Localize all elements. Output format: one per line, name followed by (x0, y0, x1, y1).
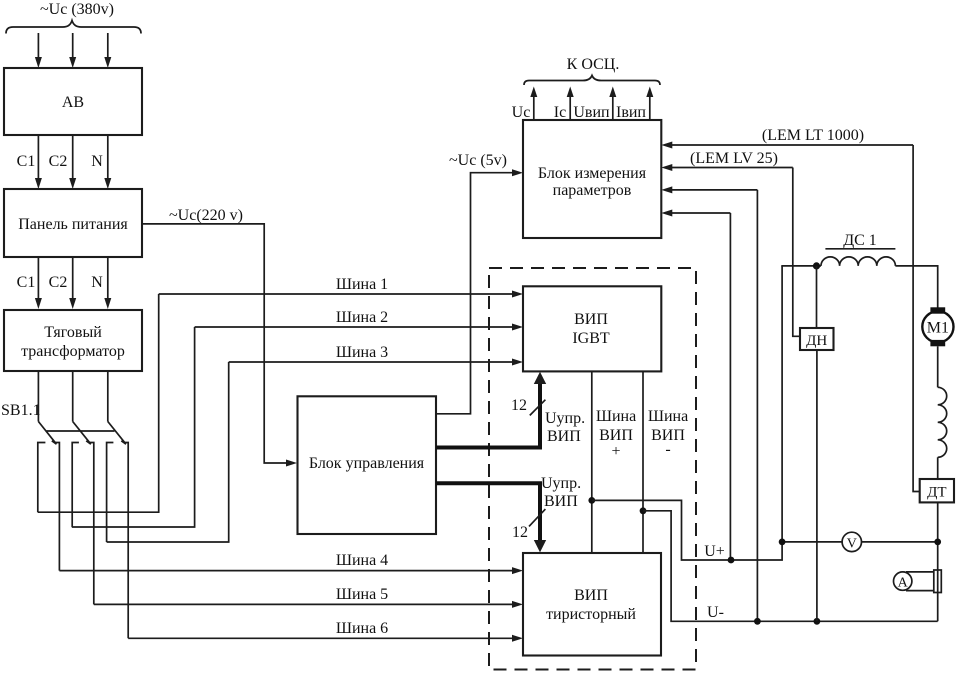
svg-text:U+: U+ (704, 543, 725, 560)
svg-text:ВИП: ВИП (547, 428, 581, 445)
node VIP plus junction (588, 497, 595, 504)
block VIP IGBT (523, 286, 661, 371)
svg-text:Шина 1: Шина 1 (336, 276, 388, 293)
wire LT1000 riser to DT (913, 145, 920, 492)
svg-text:Uвип: Uвип (573, 104, 610, 121)
wire C2 panel to transformer (72, 257, 74, 299)
svg-text:Шина: Шина (648, 408, 688, 425)
node DN bottom junction (814, 618, 821, 625)
svg-text:тиристорный: тиристорный (546, 606, 636, 623)
svg-text:ВИП: ВИП (574, 311, 608, 328)
svg-text:N: N (91, 153, 103, 170)
svg-text:Панель питания: Панель питания (18, 216, 128, 233)
svg-text:С1: С1 (17, 153, 36, 170)
svg-text:U-: U- (707, 604, 724, 621)
wire Uvip to osc (612, 96, 614, 120)
wire Uc to osc (533, 96, 535, 120)
block AB (circuit breaker) (4, 68, 142, 135)
terminal pair 1 (38, 443, 60, 571)
block DT current sensor (920, 479, 954, 502)
voltmeter V (782, 532, 938, 551)
svg-text:Шина 6: Шина 6 (336, 620, 388, 637)
wire C1 panel to transformer (37, 257, 39, 299)
wire smoothing reactor input (781, 265, 821, 267)
svg-text:ВИП: ВИП (599, 427, 633, 444)
wire Ic to osc (569, 96, 571, 120)
svg-text:Шина 3: Шина 3 (336, 344, 388, 361)
inductor DS1 smoothing reactor (821, 257, 895, 266)
svg-text:SB1.1: SB1.1 (1, 402, 41, 419)
slash 12 wires lower (529, 509, 545, 526)
wire reactor to motor (895, 266, 937, 308)
wire U+ branch (592, 266, 782, 560)
terminal pair 3 (107, 443, 129, 639)
ammeter A with shunt (894, 570, 942, 593)
svg-text:Тяговый: Тяговый (44, 324, 102, 341)
svg-text:ДТ: ДТ (927, 485, 946, 501)
wire phase A into AB (37, 33, 39, 58)
svg-text:N: N (91, 274, 103, 291)
node V line junction right (934, 539, 941, 546)
inductor motor field winding (938, 387, 947, 457)
block traction transformer (4, 310, 142, 371)
dashed converter cabinet (489, 268, 696, 670)
svg-text:трансформатор: трансформатор (21, 343, 125, 360)
svg-text:12: 12 (511, 397, 527, 414)
svg-text:Ic: Ic (554, 104, 566, 121)
wire U+ sense feedback (672, 212, 730, 214)
brace to oscilloscope (524, 76, 660, 86)
terminal pair 2 (72, 443, 94, 605)
motor M1 (922, 307, 953, 346)
svg-text:Шина: Шина (596, 408, 636, 425)
wire LV25 riser to DN (793, 168, 800, 337)
svg-text:Шина 5: Шина 5 (336, 586, 388, 603)
svg-text:ДС 1: ДС 1 (843, 232, 877, 249)
wire C2 AB to panel (72, 135, 74, 179)
svg-text:Блок управления: Блок управления (309, 455, 425, 472)
thick control bus to VIP IGBT (436, 372, 546, 448)
wire bus1 riser (38, 294, 159, 512)
wire Shina 6 (128, 637, 513, 639)
block power panel (4, 189, 142, 257)
svg-text:М1: М1 (927, 320, 949, 337)
svg-text:-: - (665, 441, 670, 458)
block measuring unit (523, 120, 661, 238)
switch SB1.1 pole 2 (73, 371, 91, 444)
svg-text:12: 12 (512, 524, 528, 541)
node DS1 left junction (813, 262, 820, 269)
svg-text:~Uc(220 v): ~Uc(220 v) (169, 207, 243, 224)
wire node to DN top (816, 266, 818, 328)
wire bus2 riser (72, 327, 195, 527)
svg-text:(LEM LT 1000): (LEM LT 1000) (762, 127, 864, 144)
svg-text:~Uc (380v): ~Uc (380v) (40, 1, 114, 18)
svg-text:Блок измерения: Блок измерения (538, 165, 647, 182)
thick control bus to VIP thyristor (436, 483, 546, 552)
wire phase C into AB (107, 33, 109, 58)
wire Ivip to osc (649, 96, 651, 120)
wire phase B into AB (72, 33, 74, 58)
svg-text:V: V (847, 537, 857, 552)
block control unit (298, 396, 437, 534)
wire N panel to transformer (107, 257, 109, 299)
node U+ sense junction (728, 557, 735, 564)
svg-text:К ОСЦ.: К ОСЦ. (567, 56, 620, 73)
svg-text:IGBT: IGBT (572, 330, 610, 347)
wire Shina 2 (195, 326, 513, 328)
wire DN bottom to U- (816, 350, 818, 621)
svg-text:Шина 2: Шина 2 (336, 309, 388, 326)
wire N AB to panel (107, 135, 109, 179)
svg-text:+: + (611, 443, 620, 460)
svg-text:С2: С2 (49, 153, 68, 170)
wire 5v control to measuring (436, 173, 513, 414)
wire Shina 1 (159, 293, 513, 295)
line under DS 1 (825, 248, 895, 250)
node U- sense junction (754, 618, 761, 625)
svg-text:параметров: параметров (553, 182, 632, 199)
wire Shina 4 (59, 570, 513, 572)
svg-text:Uупр.: Uупр. (545, 410, 585, 427)
svg-text:(LEM LV 25): (LEM LV 25) (690, 150, 778, 167)
wire LEM LT 1000 feedback (672, 144, 913, 146)
wire Shina 3 (229, 361, 513, 363)
svg-text:ДН: ДН (806, 333, 827, 349)
svg-text:Uc: Uc (512, 104, 531, 121)
wire motor to field coil (937, 346, 939, 387)
brace 380v supply (6, 21, 141, 34)
wire LEM LV 25 feedback (672, 167, 793, 169)
switch SB1.1 pole 1 (38, 371, 56, 444)
wire U+ sense riser (729, 213, 731, 560)
wire C1 AB to panel (37, 135, 39, 179)
wire bus3 riser (107, 362, 229, 542)
svg-text:Iвип: Iвип (616, 104, 646, 121)
svg-text:ВИП: ВИП (544, 493, 578, 510)
wire U- sense riser (756, 190, 758, 621)
wire DT bottom to V line (937, 502, 939, 621)
svg-text:С1: С1 (17, 274, 36, 291)
switch SB1.1 pole 3 (108, 371, 126, 444)
svg-text:Шина 4: Шина 4 (336, 552, 388, 569)
wire U- branch (643, 511, 938, 622)
node VIP minus junction (640, 507, 647, 514)
svg-text:АВ: АВ (62, 94, 84, 111)
svg-text:Uупр.: Uупр. (541, 475, 581, 492)
wire 220v panel to control unit (142, 224, 287, 463)
block VIP thyristor (523, 553, 661, 656)
svg-text:С2: С2 (49, 274, 68, 291)
wire Shina VIP plus (591, 371, 593, 553)
wire coil to DT (937, 457, 939, 479)
svg-text:ВИП: ВИП (574, 587, 608, 604)
slash 12 wires upper (530, 400, 546, 416)
switch linkage bar (47, 430, 115, 432)
block DN voltage sensor (800, 328, 834, 350)
wire U- sense feedback (672, 189, 757, 191)
node V line junction left (779, 539, 786, 546)
svg-text:~Uc (5v): ~Uc (5v) (449, 152, 507, 169)
wire Shina 5 (94, 603, 513, 605)
svg-text:А: А (898, 576, 909, 591)
wire Shina VIP minus (642, 371, 644, 553)
